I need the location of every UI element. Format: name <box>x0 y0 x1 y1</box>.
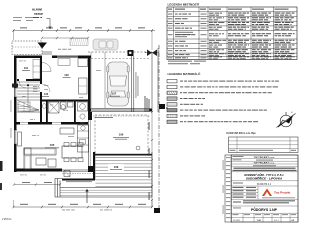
vertical rotated dim text left side <box>10 100 13 112</box>
svg-text:LEGENDA MATERIÁLŮ: LEGENDA MATERIÁLŮ <box>168 71 201 76</box>
wall: right exterior (house/carport) <box>88 56 91 113</box>
svg-text:VSTUP: VSTUP <box>34 12 43 16</box>
svg-text:LEGENDA MÍSTNOSTÍ: LEGENDA MÍSTNOSTÍ <box>168 2 200 7</box>
window: left wall openings <box>15 88 17 97</box>
terrace: lower step band hatch <box>60 190 152 195</box>
svg-text:2 Ø D/L1: 2 Ø D/L1 <box>2 218 12 221</box>
porch: dashed canopy outline at entrance <box>12 41 42 55</box>
rotated fence text <box>135 72 138 98</box>
wall: left exterior <box>14 56 17 173</box>
carport: dashed roof line top <box>88 51 152 53</box>
wall: pier below carport edge <box>88 112 92 120</box>
dimension line: top overall with ticks <box>13 30 155 32</box>
title block: situace row <box>233 202 241 203</box>
table: revision block <box>229 137 299 153</box>
logo: Top Projekt <box>262 189 272 197</box>
svg-text:TOP PROJEKT s.r.o.: TOP PROJEKT s.r.o. <box>253 163 274 165</box>
entrance leader arrow <box>47 19 52 30</box>
svg-text:66 RD TR 4.1: 66 RD TR 4.1 <box>257 184 272 186</box>
legend item 8: swatch + text <box>167 120 177 123</box>
fence gate post with rotated labels <box>128 50 134 56</box>
legend item 5: swatch + text <box>167 103 177 106</box>
left edge small mark low <box>0 183 2 190</box>
small fixture on terrace edge <box>64 171 70 177</box>
svg-text:107: 107 <box>112 92 117 96</box>
rotated text block near B marker <box>145 96 146 112</box>
table: celkem summary line <box>168 61 192 62</box>
staircase: walking line with arrow <box>27 84 29 108</box>
kitchen: counter strip along right wall <box>78 125 89 152</box>
room 102 shelf top <box>58 59 70 66</box>
svg-text:101: 101 <box>24 66 29 70</box>
street parked car (grey silhouette) <box>93 39 118 50</box>
left edge tick mark <box>0 161 3 171</box>
svg-text:103: 103 <box>44 93 49 96</box>
scattered tiny dimension texts in plan <box>19 60 23 63</box>
carport car (top view) <box>107 62 129 106</box>
fence: right boundary double line <box>151 52 153 112</box>
dimension line: bottom main y207 <box>14 206 153 208</box>
terrace wall: thick step edge <box>62 179 95 181</box>
legend item 7: swatch + text <box>167 114 177 117</box>
bathroom: shower with X <box>49 102 60 113</box>
covered terrace 106: dashed roof outline <box>95 115 148 155</box>
terrace edge: top thick line <box>93 154 152 156</box>
dining table with chairs <box>62 146 82 158</box>
label drevena terasa <box>66 180 92 183</box>
room 102 desk <box>78 59 88 67</box>
closet in zadveri <box>33 60 40 79</box>
svg-text:1:50: 1:50 <box>257 220 262 222</box>
gate line across drive <box>91 58 150 60</box>
svg-text:PŮDORYS 1.NP: PŮDORYS 1.NP <box>251 207 278 212</box>
svg-text:106: 106 <box>119 133 124 137</box>
legend item 3: swatch + text <box>167 91 177 94</box>
door gap stairs/hall <box>40 84 42 92</box>
svg-text:±0,000=297,300 m n.m. Bpv: ±0,000=297,300 m n.m. Bpv <box>226 133 256 135</box>
bathroom: wc <box>61 102 67 109</box>
wall: top exterior (left of entrance) <box>14 56 42 59</box>
staircase: straight treads <box>17 81 40 83</box>
wall: interior horizontal below zadveri <box>17 79 40 81</box>
section line B vertical right <box>158 45 160 212</box>
french window: bottom (thin double line) <box>62 169 93 171</box>
room 102 door arc <box>42 63 51 72</box>
label above top wall <box>58 48 61 51</box>
wall: corner pier living room SE <box>88 166 93 172</box>
title block: bottom info grid <box>231 213 298 222</box>
terrace corner steps bottom-left <box>55 179 62 198</box>
coffee table <box>36 158 46 165</box>
title block: outer frame <box>231 155 298 222</box>
legend item 1: swatch + text <box>167 80 177 83</box>
rain pipe circle <box>136 146 140 150</box>
table: data rows text <box>168 14 173 15</box>
dimension line: below living room y185 <box>14 184 60 186</box>
tv bench <box>18 132 22 146</box>
pare strip (rotated list) <box>225 155 231 222</box>
pare strip outside ticks <box>223 160 224 170</box>
terrace wall: thick left edge <box>93 152 95 180</box>
wall: bath dividers <box>46 101 48 122</box>
gate: hatched box on street side <box>70 39 88 46</box>
svg-text:102: 102 <box>64 73 69 77</box>
label: top-left note 2% spad <box>13 17 22 18</box>
note RD L1 <box>33 17 39 18</box>
door gap zadveri/stairs <box>19 79 26 81</box>
laundry: washer + boiler <box>78 102 88 111</box>
labels under bottom dim line <box>62 209 65 212</box>
wall: bottom exterior of living room <box>14 169 62 172</box>
glass wall east living room <box>88 120 90 168</box>
elektr. kabel dashed line <box>88 115 150 117</box>
wall: carport bottom edge <box>88 109 152 112</box>
svg-text:10.2015: 10.2015 <box>233 220 241 222</box>
svg-text:Top Projekt: Top Projekt <box>274 191 290 195</box>
stair side wall <box>17 111 40 113</box>
gate symbol (bowtie) right <box>147 50 157 57</box>
svg-text:105: 105 <box>50 143 55 147</box>
section marker B bottom <box>154 208 160 213</box>
terrace: open terrace hatch <box>96 158 152 187</box>
armchair <box>48 159 56 167</box>
bottom arrow marker <box>86 190 88 204</box>
dashed line terrace top <box>62 173 93 175</box>
wall: interior horizontal y100 (bath top) <box>42 100 88 102</box>
wall: interior vertical x41 (hall/stairs) <box>40 58 42 122</box>
staircase: winder treads (fan) <box>17 100 39 112</box>
legend item 6: swatch + text <box>167 109 177 112</box>
wc: small toilet left of bath <box>43 104 47 109</box>
legend item 2: swatch + text <box>167 85 177 88</box>
terrace label 108 <box>108 164 124 171</box>
carport: drive lane lines <box>90 52 92 108</box>
wall: interior horizontal y122 (living top) <box>14 122 88 125</box>
entrance arrow: filled triangle <box>38 43 48 49</box>
svg-text:108: 108 <box>114 165 119 169</box>
legend item 4: swatch + text <box>167 97 177 100</box>
kitchen island <box>60 128 74 134</box>
dimension line: secondary top at y38 <box>42 37 88 39</box>
room 104: under-stair storage <box>18 102 30 111</box>
section marker B top <box>159 104 165 109</box>
title block: top company rows <box>231 158 298 213</box>
bathroom: sink <box>68 102 74 107</box>
door step lines at entrance <box>42 51 52 53</box>
table: room legend grid <box>167 7 297 60</box>
window: in top wall <box>57 55 78 57</box>
wall: top exterior (right of entrance) <box>52 56 91 59</box>
terrace bottom edges <box>60 187 152 189</box>
svg-text:TOP PROJEKT s.r.o.: TOP PROJEKT s.r.o. <box>253 157 274 159</box>
stair dimension text block <box>33 85 37 88</box>
room 102 wardrobe <box>79 78 88 94</box>
sofa (L-shape) <box>24 148 56 155</box>
north arrow compass <box>277 112 296 128</box>
dimension line: right vertical x152 <box>151 112 153 207</box>
table: header text <box>168 9 172 10</box>
svg-text:SUDOMĚŘICE - LIPOVKA: SUDOMĚŘICE - LIPOVKA <box>246 176 282 181</box>
title block: staff rows <box>231 186 258 199</box>
